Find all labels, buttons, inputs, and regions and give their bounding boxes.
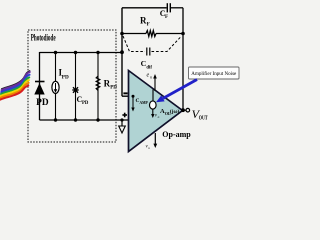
- wire: I_PD branch: [55, 53, 57, 121]
- node: R_F left dot: [120, 32, 124, 36]
- svg-text:(jω): (jω): [170, 108, 180, 115]
- node: summing junction dot (PD rail meets feedback leg): [120, 50, 124, 54]
- capacitor C_F: [167, 3, 170, 12]
- resistor R_F: [146, 31, 156, 37]
- noise source circle: [150, 101, 157, 109]
- wire: feedback top rail: [122, 7, 183, 9]
- svg-text:AMP: AMP: [140, 101, 149, 105]
- svg-text:n: n: [150, 75, 152, 80]
- svg-text:PD: PD: [82, 101, 89, 106]
- node: top rail junction dots: [54, 51, 100, 54]
- wire: photodiode network top rail: [40, 52, 123, 54]
- ground (non-inverting input): [119, 120, 126, 133]
- svg-text:Op-amp: Op-amp: [162, 130, 191, 139]
- noise source bottom arrow: [151, 109, 154, 118]
- light ribbon (rainbow): [0, 71, 30, 100]
- svg-text:F: F: [165, 15, 168, 20]
- noise arrow below op-amp v_n: [153, 133, 157, 148]
- wire: C_dif dashed branch: [123, 36, 182, 52]
- resistor R_PD: [96, 76, 100, 90]
- svg-text:PD: PD: [36, 97, 49, 107]
- label v_n (below): [146, 145, 151, 151]
- svg-text:PD: PD: [110, 85, 117, 90]
- svg-text:F: F: [147, 22, 150, 28]
- svg-text:n: n: [158, 115, 160, 119]
- wire: C_PD branch: [75, 53, 77, 121]
- svg-text:Photodiode: Photodiode: [31, 34, 56, 44]
- current source I_PD: [52, 81, 59, 93]
- label R_PD: [104, 79, 118, 91]
- svg-text:OUT: OUT: [199, 116, 208, 122]
- node: R_F right dot: [181, 32, 185, 36]
- op-amp U1: [129, 71, 183, 152]
- output terminal circle: [186, 108, 190, 112]
- capacitor C_PD (starred symbol): [72, 87, 78, 93]
- wire: photodiode network bottom rail: [40, 119, 129, 121]
- label A_OL(jw): [160, 108, 179, 116]
- label e_n: [147, 73, 153, 80]
- wire: inverting input vertical (feedback left leg): [121, 8, 123, 96]
- annotation arrow (blue): [156, 80, 197, 103]
- label C_dif: [141, 59, 153, 71]
- label C_AMP: [136, 98, 149, 105]
- label v_n (inner): [155, 114, 160, 120]
- photodiode PD: [34, 82, 44, 95]
- label C_F: [160, 9, 168, 20]
- capacitor C_AMP branch inside op-amp: [131, 95, 134, 112]
- svg-text:PD: PD: [62, 74, 69, 80]
- wire: R_PD branch: [97, 53, 99, 121]
- wire: feedback right leg: [182, 8, 184, 110]
- wire: R_F rail: [122, 33, 183, 35]
- label plus input: [122, 113, 127, 118]
- label C_PD: [77, 95, 89, 106]
- capacitor C_dif: [147, 48, 150, 56]
- label I_PD: [59, 68, 69, 81]
- callout box Amplifier Input Noise: [189, 67, 240, 79]
- wire: inverting input horizontal into op-amp: [122, 95, 153, 97]
- svg-text:n: n: [148, 146, 150, 150]
- node: output junction dot: [181, 108, 185, 112]
- svg-text:Amplifier Input Noise: Amplifier Input Noise: [191, 70, 237, 77]
- wire: output stub: [183, 109, 186, 111]
- noise source e_n (arrow up): [153, 74, 157, 101]
- svg-text:dif: dif: [146, 65, 152, 70]
- photodiode box (dashed): [28, 30, 116, 142]
- wire: PD branch: [39, 52, 41, 120]
- label V_OUT: [192, 107, 208, 122]
- node: bottom rail junction dots: [54, 118, 124, 121]
- label R_F: [140, 15, 150, 27]
- label minus input: [123, 92, 127, 94]
